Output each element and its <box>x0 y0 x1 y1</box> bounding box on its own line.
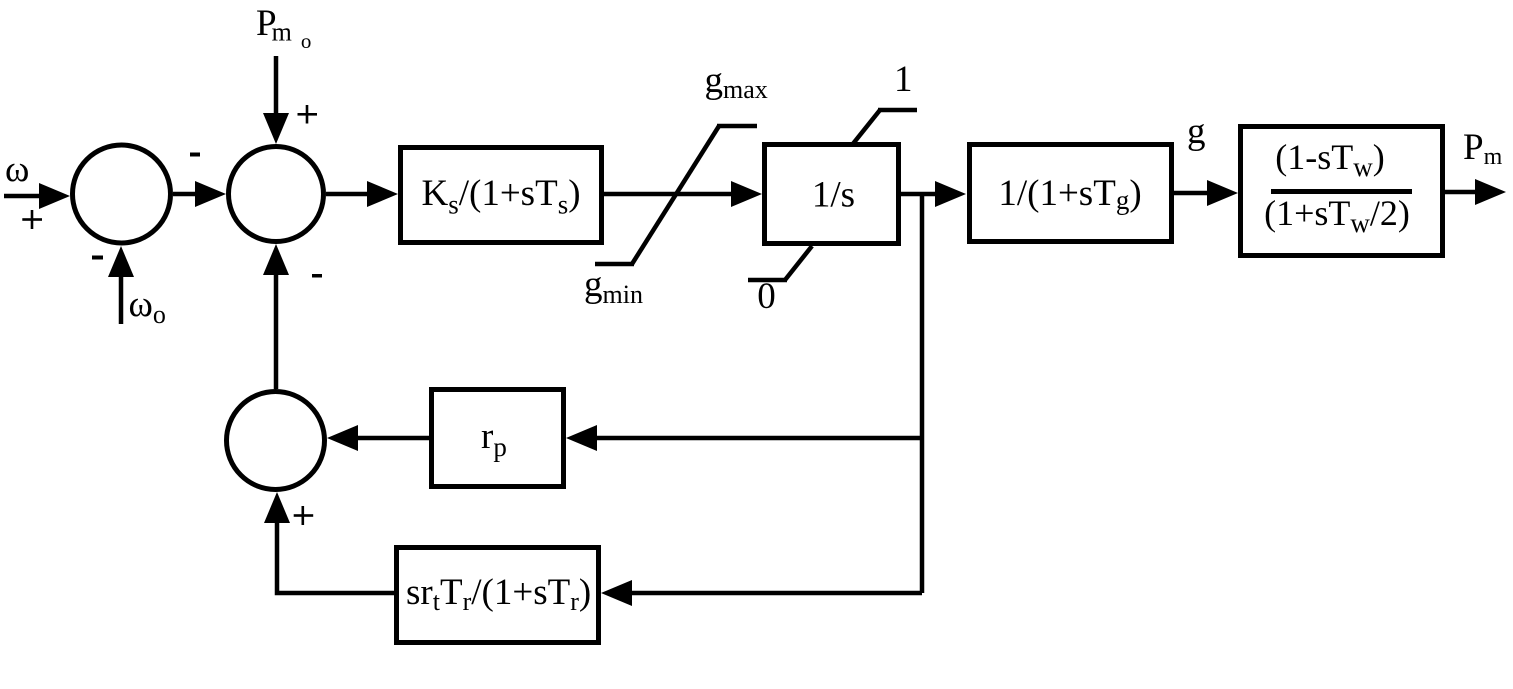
svg-text:(1+sTw/2): (1+sTw/2) <box>1264 193 1410 238</box>
svg-text:0: 0 <box>757 276 776 317</box>
svg-text:Ks/(1+sTs): Ks/(1+sTs) <box>421 173 580 220</box>
svg-text:ω: ω <box>5 149 29 190</box>
svg-text:1: 1 <box>894 59 913 100</box>
svg-text:g: g <box>1187 111 1206 152</box>
svg-text:1/s: 1/s <box>812 175 855 216</box>
